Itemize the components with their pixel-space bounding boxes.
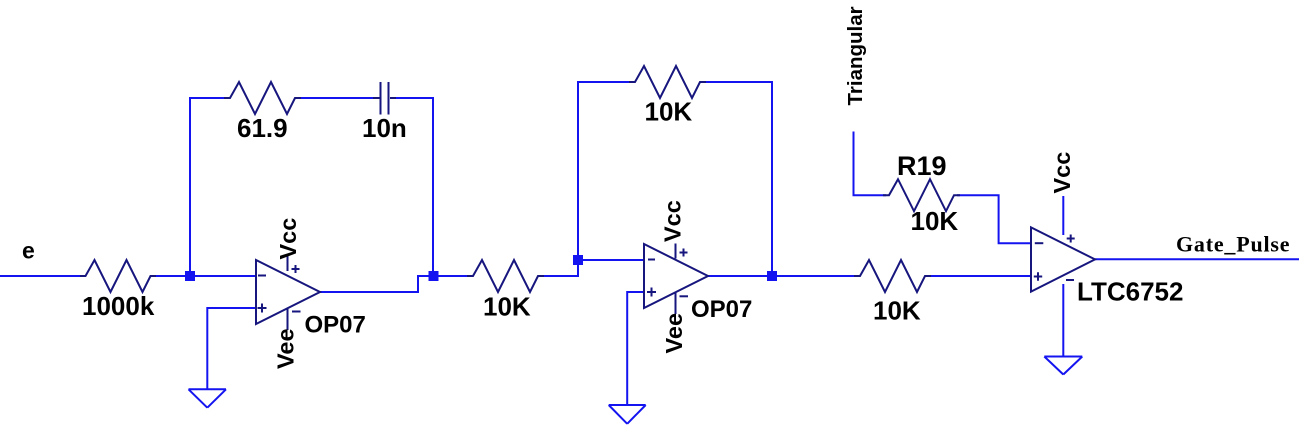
svg-text:Gate_Pulse: Gate_Pulse xyxy=(1176,232,1290,257)
svg-text:61.9: 61.9 xyxy=(237,113,288,143)
svg-text:Triangular: Triangular xyxy=(844,6,867,105)
svg-text:10K: 10K xyxy=(483,292,531,322)
svg-text:10K: 10K xyxy=(645,97,693,127)
svg-text:1000k: 1000k xyxy=(82,291,155,321)
svg-text:LTC6752: LTC6752 xyxy=(1077,277,1183,307)
svg-text:Vcc: Vcc xyxy=(275,218,301,260)
svg-text:10K: 10K xyxy=(911,206,959,236)
svg-text:OP07: OP07 xyxy=(691,296,752,323)
svg-text:OP07: OP07 xyxy=(305,312,366,339)
svg-text:Vcc: Vcc xyxy=(660,200,686,242)
svg-text:Vcc: Vcc xyxy=(1049,152,1075,194)
svg-text:Vee: Vee xyxy=(273,328,299,369)
svg-text:10K: 10K xyxy=(873,296,921,326)
svg-text:R19: R19 xyxy=(897,151,947,181)
svg-text:10n: 10n xyxy=(362,113,407,143)
svg-text:e: e xyxy=(22,238,35,264)
svg-text:Vee: Vee xyxy=(661,313,687,354)
